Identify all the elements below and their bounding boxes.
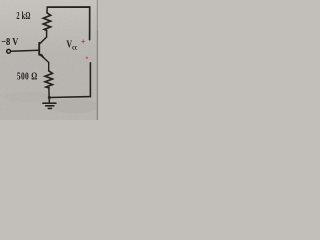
svg-text:2 kΩ: 2 kΩ	[16, 11, 30, 22]
svg-text:−8 V: −8 V	[1, 36, 18, 48]
svg-text:500 Ω: 500 Ω	[17, 72, 38, 84]
